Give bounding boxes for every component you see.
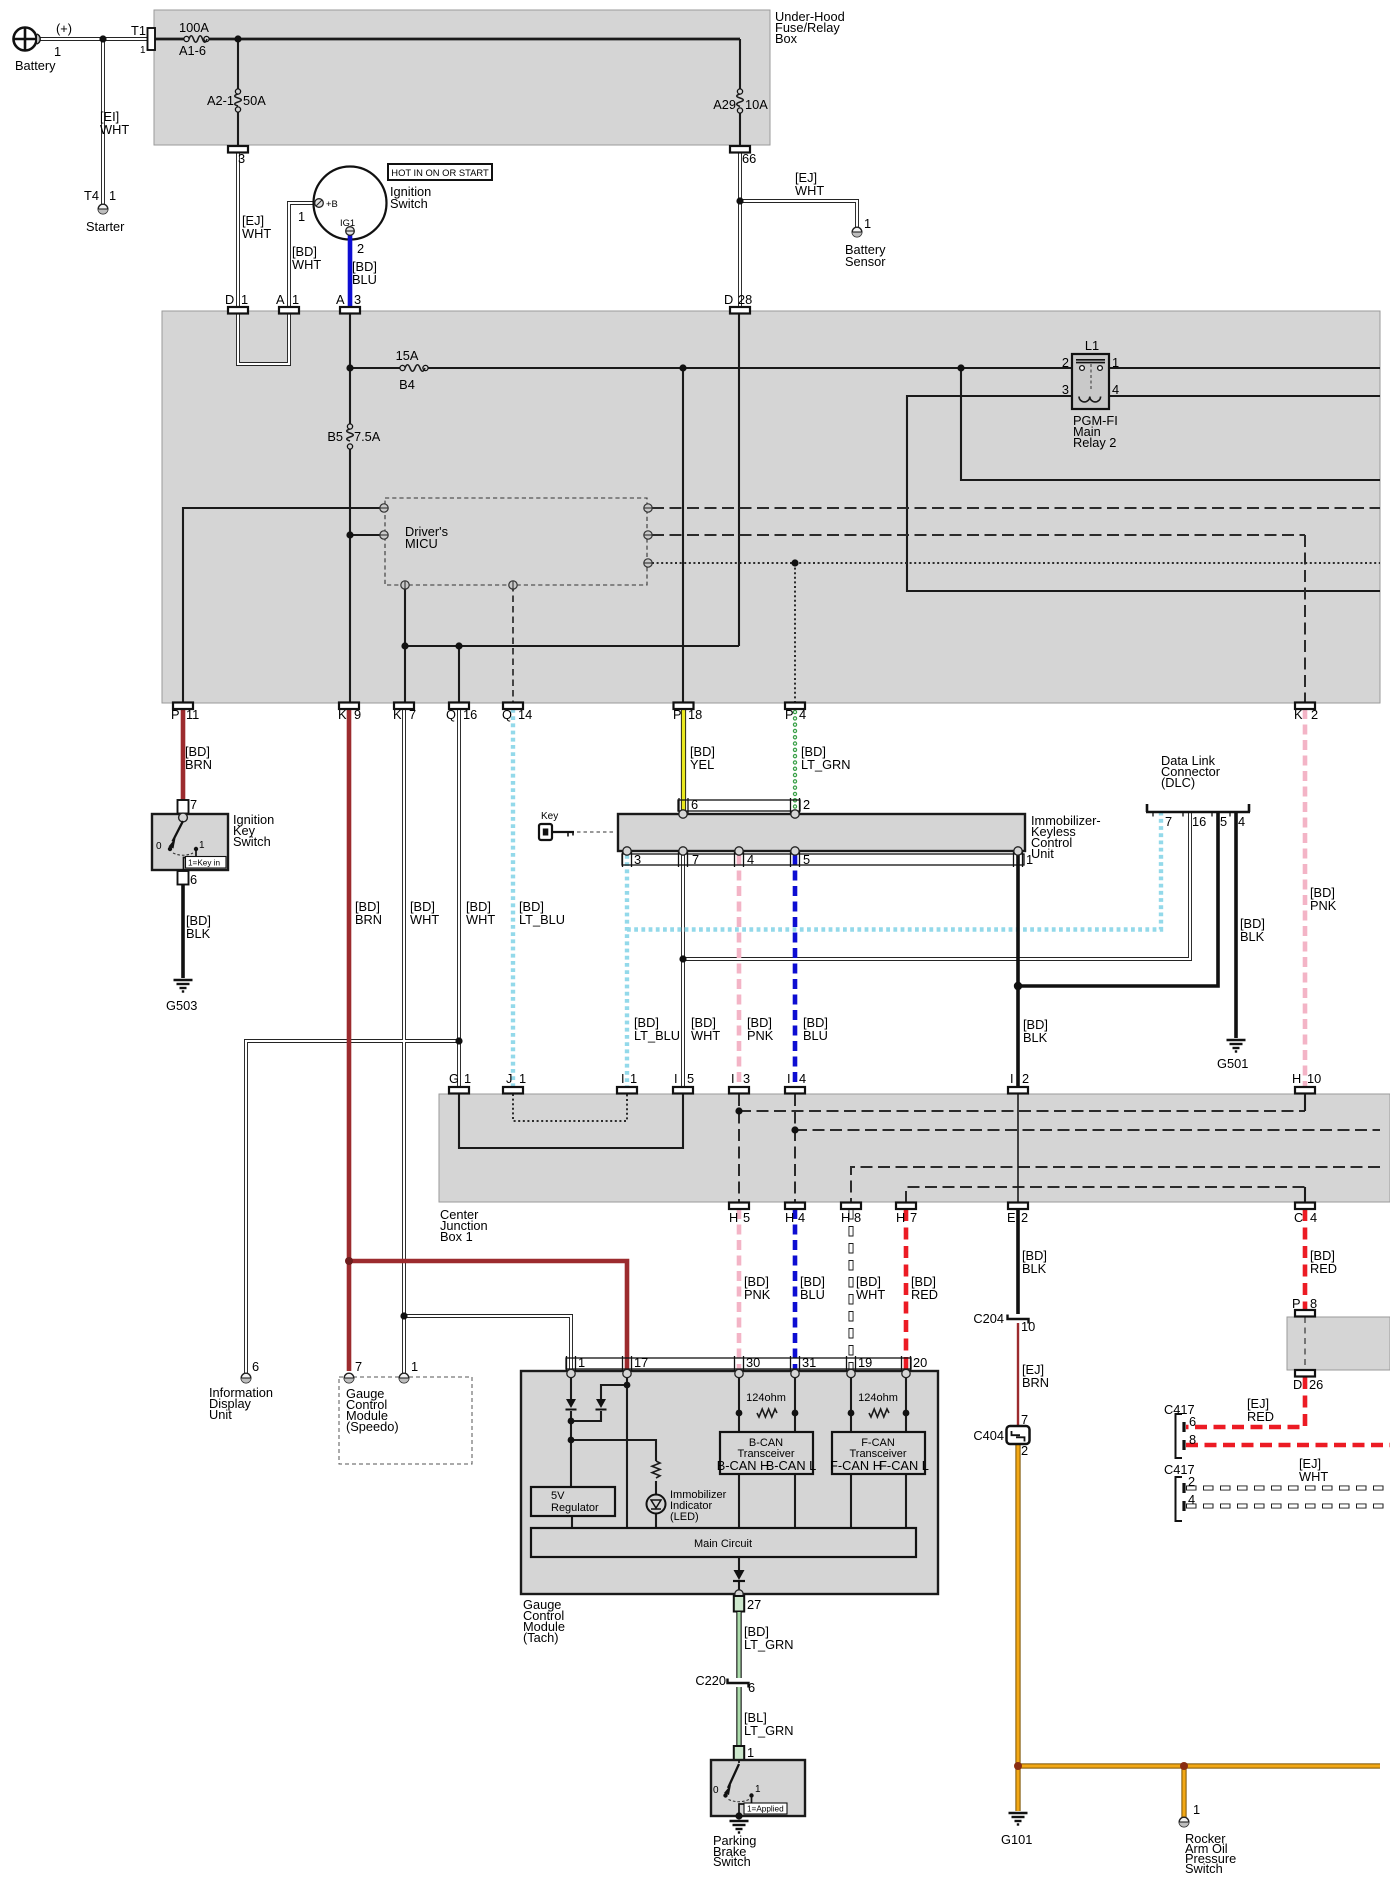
svg-text:K: K [338, 707, 347, 722]
svg-text:1: 1 [1193, 1802, 1200, 1817]
svg-text:A2-1: A2-1 [207, 93, 234, 108]
svg-text:6: 6 [748, 1680, 755, 1695]
svg-text:(+): (+) [56, 21, 72, 36]
svg-text:C: C [1294, 1210, 1303, 1225]
svg-text:20: 20 [913, 1355, 927, 1370]
svg-text:Box 1: Box 1 [440, 1229, 473, 1244]
svg-text:(DLC): (DLC) [1161, 775, 1195, 790]
svg-text:16: 16 [1192, 814, 1206, 829]
svg-text:3: 3 [354, 292, 361, 307]
svg-text:YEL: YEL [690, 757, 714, 772]
svg-text:30: 30 [746, 1355, 760, 1370]
svg-text:A29: A29 [713, 97, 736, 112]
svg-text:Regulator: Regulator [551, 1502, 599, 1514]
svg-text:BLU: BLU [352, 272, 377, 287]
svg-text:WHT: WHT [100, 122, 129, 137]
svg-text:1: 1 [1026, 852, 1033, 867]
svg-text:4: 4 [799, 1071, 806, 1086]
svg-text:6: 6 [190, 872, 197, 887]
svg-text:(Tach): (Tach) [523, 1630, 559, 1645]
svg-text:D: D [1293, 1377, 1302, 1392]
svg-text:F-CAN L: F-CAN L [879, 1458, 929, 1473]
svg-text:Key: Key [541, 811, 558, 822]
svg-text:1: 1 [199, 840, 205, 851]
svg-text:LT_BLU: LT_BLU [519, 912, 565, 927]
svg-text:LT_GRN: LT_GRN [744, 1723, 794, 1738]
svg-text:Switch: Switch [233, 834, 271, 849]
svg-text:L1: L1 [1085, 338, 1099, 353]
svg-text:Q: Q [502, 707, 512, 722]
svg-text:Sensor: Sensor [845, 254, 886, 269]
svg-text:16: 16 [463, 707, 477, 722]
svg-text:G503: G503 [166, 998, 197, 1013]
svg-text:0: 0 [156, 841, 162, 852]
svg-text:Switch: Switch [390, 196, 428, 211]
svg-text:1: 1 [464, 1071, 471, 1086]
svg-text:6: 6 [1189, 1414, 1196, 1429]
svg-text:K: K [393, 707, 402, 722]
svg-text:17: 17 [634, 1355, 648, 1370]
svg-text:B4: B4 [399, 377, 415, 392]
svg-text:P: P [785, 707, 794, 722]
svg-text:D: D [724, 292, 733, 307]
svg-text:G101: G101 [1001, 1832, 1032, 1847]
svg-text:1: 1 [54, 44, 61, 59]
svg-text:H: H [729, 1210, 738, 1225]
svg-text:BLU: BLU [803, 1028, 828, 1043]
svg-text:B-CAN H: B-CAN H [717, 1458, 770, 1473]
svg-text:2: 2 [1021, 1443, 1028, 1458]
svg-text:MICU: MICU [405, 536, 438, 551]
svg-text:BRN: BRN [355, 912, 382, 927]
svg-text:1: 1 [411, 1359, 418, 1374]
svg-text:11: 11 [186, 707, 199, 722]
svg-text:4: 4 [1238, 814, 1245, 829]
svg-text:K: K [1294, 707, 1303, 722]
svg-text:RED: RED [911, 1287, 938, 1302]
svg-text:WHT: WHT [856, 1287, 885, 1302]
svg-text:7.5A: 7.5A [354, 429, 381, 444]
svg-text:BLK: BLK [186, 926, 211, 941]
svg-text:1: 1 [140, 45, 146, 56]
svg-text:T1: T1 [131, 23, 146, 38]
svg-text:4: 4 [747, 852, 754, 867]
svg-text:T4: T4 [84, 188, 99, 203]
svg-text:WHT: WHT [795, 183, 824, 198]
svg-text:4: 4 [1188, 1492, 1195, 1507]
svg-text:0: 0 [713, 1785, 719, 1796]
svg-text:5: 5 [1220, 814, 1227, 829]
svg-text:(Speedo): (Speedo) [346, 1419, 399, 1434]
svg-text:A: A [276, 292, 285, 307]
svg-text:Starter: Starter [86, 219, 125, 234]
svg-text:A: A [336, 292, 345, 307]
svg-text:100A: 100A [179, 20, 209, 35]
svg-text:2: 2 [803, 797, 810, 812]
svg-text:1: 1 [298, 209, 305, 224]
svg-text:LT_GRN: LT_GRN [801, 757, 851, 772]
svg-text:4: 4 [799, 707, 806, 722]
svg-text:3: 3 [743, 1071, 750, 1086]
svg-text:2: 2 [357, 241, 364, 256]
svg-text:66: 66 [742, 151, 756, 166]
svg-text:Main Circuit: Main Circuit [694, 1538, 752, 1550]
svg-text:7: 7 [910, 1210, 917, 1225]
svg-text:7: 7 [1165, 814, 1172, 829]
svg-text:1: 1 [630, 1071, 637, 1086]
svg-text:1: 1 [578, 1355, 585, 1370]
svg-text:5: 5 [803, 852, 810, 867]
svg-text:14: 14 [518, 707, 532, 722]
svg-text:C204: C204 [973, 1311, 1004, 1326]
svg-text:WHT: WHT [466, 912, 495, 927]
svg-text:I: I [787, 1071, 791, 1086]
svg-text:26: 26 [1309, 1377, 1323, 1392]
svg-text:C404: C404 [973, 1428, 1004, 1443]
svg-text:BLK: BLK [1023, 1030, 1048, 1045]
svg-text:6: 6 [691, 797, 698, 812]
svg-text:H: H [785, 1210, 794, 1225]
svg-text:WHT: WHT [410, 912, 439, 927]
svg-text:WHT: WHT [691, 1028, 720, 1043]
svg-text:BLK: BLK [1240, 929, 1265, 944]
svg-text:RED: RED [1310, 1261, 1337, 1276]
svg-text:Unit: Unit [1031, 846, 1054, 861]
svg-text:WHT: WHT [1299, 1469, 1328, 1484]
svg-text:2: 2 [1022, 1071, 1029, 1086]
svg-text:BRN: BRN [185, 757, 212, 772]
svg-text:B-CAN L: B-CAN L [766, 1458, 817, 1473]
svg-text:(LED): (LED) [670, 1511, 699, 1523]
svg-text:A1-6: A1-6 [179, 43, 206, 58]
svg-text:7: 7 [692, 852, 699, 867]
svg-text:9: 9 [354, 707, 361, 722]
svg-text:10: 10 [1021, 1319, 1035, 1334]
svg-text:LT_GRN: LT_GRN [744, 1637, 794, 1652]
svg-text:HOT IN ON OR START: HOT IN ON OR START [391, 167, 489, 178]
svg-text:3: 3 [1062, 382, 1069, 397]
svg-text:B5: B5 [327, 429, 343, 444]
svg-text:H: H [896, 1210, 905, 1225]
svg-text:4: 4 [798, 1210, 805, 1225]
svg-text:28: 28 [738, 292, 752, 307]
svg-text:7: 7 [355, 1359, 362, 1374]
svg-text:2: 2 [1062, 355, 1069, 370]
svg-text:4: 4 [1112, 382, 1119, 397]
svg-text:BRN: BRN [1022, 1375, 1049, 1390]
svg-text:15A: 15A [396, 348, 419, 363]
svg-text:BLK: BLK [1022, 1261, 1047, 1276]
svg-text:8: 8 [1310, 1296, 1317, 1311]
svg-text:1: 1 [755, 1784, 761, 1795]
svg-text:I: I [731, 1071, 735, 1086]
svg-text:P: P [673, 707, 682, 722]
svg-text:5: 5 [687, 1071, 694, 1086]
svg-text:P: P [1292, 1296, 1301, 1311]
svg-text:Box: Box [775, 31, 798, 46]
svg-text:1: 1 [241, 292, 248, 307]
svg-text:+B: +B [326, 198, 338, 209]
svg-text:6: 6 [252, 1359, 259, 1374]
svg-text:G: G [449, 1071, 459, 1086]
svg-text:8: 8 [854, 1210, 861, 1225]
svg-text:2: 2 [1021, 1210, 1028, 1225]
svg-text:PNK: PNK [747, 1028, 774, 1043]
svg-text:10A: 10A [745, 97, 768, 112]
svg-text:10: 10 [1307, 1071, 1321, 1086]
svg-text:WHT: WHT [292, 257, 321, 272]
svg-text:LT_BLU: LT_BLU [634, 1028, 680, 1043]
svg-text:D: D [225, 292, 234, 307]
svg-text:PNK: PNK [1310, 898, 1337, 913]
svg-text:G501: G501 [1217, 1056, 1248, 1071]
svg-text:Switch: Switch [1185, 1861, 1223, 1876]
svg-text:2: 2 [1311, 707, 1318, 722]
svg-text:31: 31 [802, 1355, 816, 1370]
svg-text:Q: Q [446, 707, 456, 722]
svg-text:8: 8 [1189, 1432, 1196, 1447]
svg-text:1=Key in: 1=Key in [188, 859, 221, 868]
svg-text:1: 1 [747, 1745, 754, 1760]
svg-text:7: 7 [409, 707, 416, 722]
svg-text:P: P [171, 707, 180, 722]
svg-text:1: 1 [519, 1071, 526, 1086]
svg-text:F-CAN H: F-CAN H [830, 1458, 882, 1473]
svg-text:4: 4 [1310, 1210, 1317, 1225]
svg-text:1: 1 [109, 188, 116, 203]
svg-text:I: I [621, 1071, 625, 1086]
svg-text:1=Applied: 1=Applied [747, 1805, 784, 1814]
svg-text:I: I [1010, 1071, 1014, 1086]
svg-text:1: 1 [1112, 355, 1119, 370]
svg-text:Battery: Battery [15, 58, 56, 73]
svg-text:7: 7 [190, 797, 197, 812]
svg-text:Unit: Unit [209, 1407, 232, 1422]
svg-text:H: H [1292, 1071, 1301, 1086]
svg-text:RED: RED [1247, 1409, 1274, 1424]
svg-text:50A: 50A [243, 93, 266, 108]
svg-text:J: J [506, 1071, 512, 1086]
svg-text:2: 2 [1188, 1474, 1195, 1489]
svg-text:IG1: IG1 [340, 217, 355, 228]
svg-text:I: I [674, 1071, 678, 1086]
svg-text:Switch: Switch [713, 1854, 751, 1869]
svg-text:7: 7 [1021, 1412, 1028, 1427]
svg-text:C220: C220 [695, 1673, 726, 1688]
svg-text:1: 1 [292, 292, 299, 307]
svg-text:WHT: WHT [242, 226, 271, 241]
svg-text:124ohm: 124ohm [858, 1392, 898, 1404]
svg-text:19: 19 [858, 1355, 872, 1370]
svg-text:PNK: PNK [744, 1287, 771, 1302]
svg-text:3: 3 [634, 852, 641, 867]
svg-text:Relay 2: Relay 2 [1073, 435, 1116, 450]
svg-text:1: 1 [864, 216, 871, 231]
svg-text:H: H [841, 1210, 850, 1225]
svg-text:5V: 5V [551, 1490, 565, 1502]
svg-text:124ohm: 124ohm [746, 1392, 786, 1404]
svg-text:27: 27 [747, 1597, 761, 1612]
svg-text:E: E [1007, 1210, 1016, 1225]
svg-text:18: 18 [688, 707, 702, 722]
svg-text:BLU: BLU [800, 1287, 825, 1302]
svg-text:3: 3 [238, 151, 245, 166]
svg-text:5: 5 [743, 1210, 750, 1225]
